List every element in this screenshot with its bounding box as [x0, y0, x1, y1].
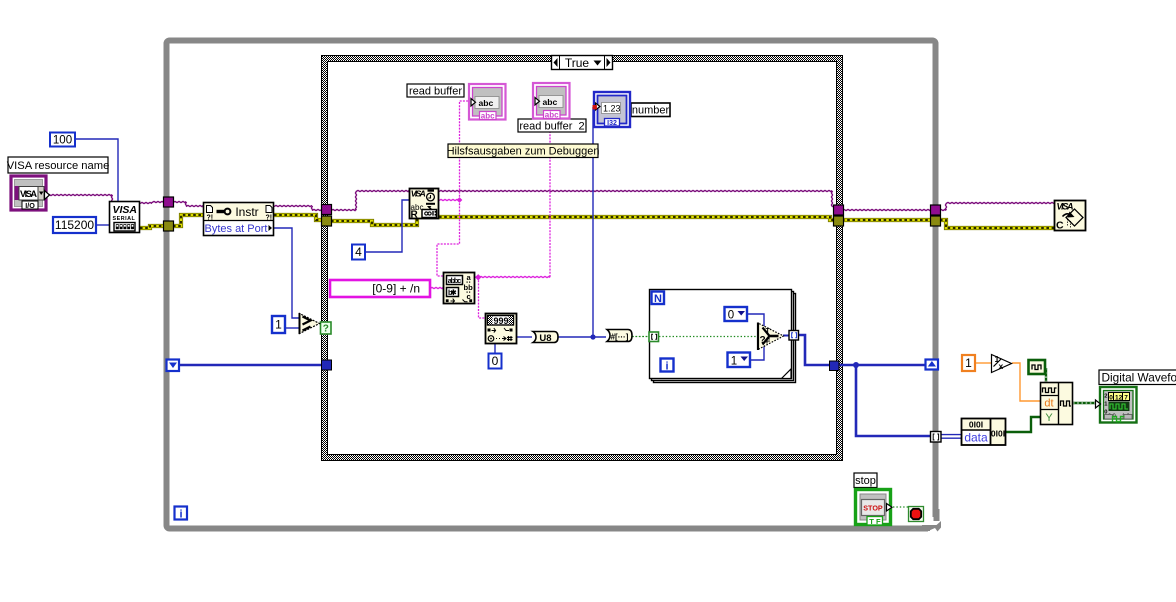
wire shift register left to case — [180, 364, 321, 367]
tunnel blue case right (array out) — [830, 361, 840, 371]
svg-text:read buffer 2: read buffer 2 — [519, 120, 584, 132]
wire string: match out down to scan node — [479, 277, 486, 318]
constant 115200 — [53, 217, 96, 233]
svg-text:F: F — [766, 339, 771, 346]
wire 115200 to serial config — [96, 224, 109, 226]
wire VISA purple: case tunnel to VISA read — [331, 209, 356, 210]
greater-or-equal comparison node — [300, 313, 320, 334]
svg-text:7: 7 — [1124, 394, 1128, 401]
wire VISA purple: while tunnel to property node — [173, 201, 186, 202]
svg-text:STOP: STOP — [863, 503, 883, 512]
while loop iteration terminal i — [175, 507, 188, 520]
wire digital data: data node to Y input — [1006, 417, 1040, 432]
wire 100 to serial config — [75, 139, 118, 201]
svg-text:C: C — [1056, 220, 1064, 232]
junction diamond string wire — [457, 197, 463, 203]
svg-text:115200: 115200 — [55, 218, 94, 232]
svg-text:999: 999 — [494, 316, 509, 326]
wire select constant 0 — [747, 314, 764, 331]
tunnel olive while right — [931, 216, 941, 226]
svg-text:0: 0 — [1109, 394, 1113, 401]
while loop border — [167, 41, 936, 529]
wire digital constant to build waveform — [1045, 368, 1047, 382]
VISA Read VI — [410, 189, 439, 221]
svg-text:bb: bb — [464, 283, 474, 292]
svg-text:0: 0 — [728, 310, 734, 322]
wire error: case tunnel to while tunnel — [842, 218, 932, 222]
junction dot scan wire — [590, 334, 595, 339]
wire 2D array to data node (double) — [939, 434, 961, 436]
wire digital waveform to indicator — [1073, 402, 1097, 404]
build digital waveform node — [1041, 383, 1073, 425]
svg-text:[0-9] + /n: [0-9] + /n — [372, 282, 420, 296]
U8 conversion node — [533, 332, 558, 344]
wire error: case tunnel to VISA read — [331, 219, 417, 225]
svg-text:R: R — [411, 209, 419, 220]
string constant regex — [330, 280, 430, 297]
wire error: serial config to while tunnel — [140, 226, 165, 228]
svg-text:abc: abc — [479, 98, 494, 108]
svg-text:1: 1 — [275, 318, 282, 332]
wire select output to loop tunnel — [783, 335, 789, 337]
constant 1 (bytes compare) — [272, 316, 285, 333]
label VISA resource name — [8, 157, 108, 173]
svg-text:True: True — [565, 56, 590, 70]
tunnel olive case left — [322, 216, 332, 226]
wire string: VISA read to junction — [439, 199, 460, 200]
wire error: VISA read to case right tunnel — [439, 217, 835, 220]
svg-text:abc: abc — [543, 97, 558, 107]
label stop — [854, 473, 877, 488]
svg-text:U8: U8 — [539, 333, 551, 344]
svg-text:Bytes at Port: Bytes at Port — [205, 223, 268, 235]
svg-text:abc: abc — [545, 110, 559, 119]
svg-text:number: number — [632, 105, 670, 117]
wire scan to U8 — [517, 336, 532, 338]
wire VISA purple: VISA read to case right tunnel — [439, 190, 832, 191]
svg-text:i: i — [179, 509, 182, 521]
tunnel array while right [] — [931, 432, 942, 443]
wire VISA purple: property node to case tunnel — [274, 205, 312, 206]
junction dot array wire — [853, 362, 859, 368]
svg-text:0: 0 — [492, 354, 499, 368]
match pattern node — [444, 273, 475, 304]
svg-text:I32: I32 — [607, 120, 617, 127]
wire orange reciprocal to dt input — [1012, 363, 1040, 401]
svg-text:Y: Y — [1045, 412, 1053, 424]
wire 4 to VISA read — [364, 200, 409, 252]
svg-text:Hilsfsausgaben zum Debuggen: Hilsfsausgaben zum Debuggen — [447, 146, 600, 158]
svg-text:12: 12 — [1115, 394, 1123, 401]
svg-text:?: ? — [323, 324, 329, 335]
digital data node — [962, 419, 1006, 446]
wire string: junction down to match pattern — [437, 200, 460, 276]
ring constant 1 — [728, 353, 751, 368]
numeric indicator number I32 — [593, 92, 631, 127]
svg-text:?!: ?! — [207, 215, 214, 222]
wire select constant 1 — [750, 343, 764, 360]
svg-text:abc: abc — [481, 111, 495, 120]
stop boolean control — [856, 490, 893, 526]
svg-text:1: 1 — [965, 356, 972, 370]
svg-text:1.23: 1.23 — [603, 104, 621, 114]
svg-text:VISA resource name: VISA resource name — [7, 160, 110, 172]
case structure border (True frame) — [322, 56, 843, 461]
svg-text:0I0I: 0I0I — [991, 429, 1005, 439]
svg-text:T: T — [766, 328, 771, 335]
svg-text:1: 1 — [731, 356, 737, 368]
select node — [758, 323, 784, 351]
wire boolean inside for loop — [659, 336, 757, 338]
constant 1 orange (DBL) — [962, 355, 975, 371]
wire number indicator branch — [592, 107, 594, 337]
svg-text:dt: dt — [1044, 398, 1053, 410]
case selector label True — [552, 56, 613, 71]
wire error: while tunnel to property node — [173, 215, 203, 226]
wire error: while tunnel to VISA close — [940, 220, 1054, 228]
VISA configure serial port VI — [110, 202, 140, 233]
tunnel blue case left — [322, 360, 332, 370]
loop condition terminal (stop sign) — [909, 507, 924, 522]
label read buffer — [407, 84, 464, 97]
svg-text:?!: ?! — [266, 215, 273, 222]
wire VISA purple: serial config to while tunnel — [140, 202, 152, 203]
comment label Hilsfsausgaben zum Debuggen — [448, 144, 598, 158]
wire 0 to scan node — [494, 344, 496, 354]
svg-text:T F: T F — [869, 517, 881, 526]
junction diamond match output — [475, 274, 481, 280]
svg-text:I/O: I/O — [25, 201, 35, 210]
case selector terminal ? — [321, 322, 332, 334]
constant 100 — [50, 133, 75, 147]
wire for-loop out to case tunnel (array) — [798, 335, 830, 365]
svg-text:#[···]: #[···] — [611, 333, 629, 342]
string indicator read buffer 2 — [533, 83, 570, 119]
wire array branch down to while tunnel — [856, 365, 931, 436]
label Digital Waveform — [1099, 370, 1176, 385]
svg-text:VISA: VISA — [411, 189, 426, 199]
digital pattern constant — [1029, 360, 1046, 374]
svg-text:0I0I: 0I0I — [969, 420, 983, 430]
wire VISA purple: control to serial config — [47, 194, 112, 195]
tunnel olive case right — [834, 216, 844, 226]
svg-text:SERIAL: SERIAL — [113, 216, 136, 222]
tunnel purple while right — [931, 205, 941, 215]
wire VISA purple: case right tunnel to while tunnel — [842, 209, 931, 210]
svg-text:abbc: abbc — [448, 276, 462, 285]
svg-text:VISA: VISA — [20, 189, 38, 199]
wire orange 1 to reciprocal — [975, 362, 991, 364]
wire string: regex constant to match pattern — [430, 287, 443, 288]
svg-text:VISA: VISA — [113, 204, 138, 216]
svg-text:4: 4 — [355, 245, 362, 259]
svg-text:Instr: Instr — [235, 205, 258, 219]
reciprocal 1/x node — [992, 354, 1012, 373]
wire string: match out to read buffer 2 — [475, 276, 550, 277]
tunnel olive while left — [164, 221, 174, 231]
wire boolean array to for loop — [632, 336, 650, 338]
svg-text:N: N — [654, 293, 662, 305]
VISA resource name control — [11, 176, 50, 210]
while loop resize corner — [928, 517, 945, 536]
string indicator read buffer — [469, 84, 506, 120]
number to boolean array node — [607, 330, 632, 342]
tunnel purple case right — [834, 205, 844, 215]
wire bytes at port to greater-equal — [274, 228, 299, 318]
for loop frame — [650, 290, 796, 383]
svg-text:data: data — [964, 431, 988, 445]
svg-text:b✱: b✱ — [448, 288, 457, 297]
for loop iteration terminal i — [661, 359, 674, 372]
VISA Close VI — [1055, 201, 1086, 232]
wire string: junction up to read buffer indicator — [460, 101, 470, 200]
shift register left — [167, 360, 180, 372]
tunnel purple while left — [164, 197, 174, 207]
for loop output tunnel [] — [789, 331, 799, 341]
label number — [631, 103, 670, 117]
constant 4 (byte count) — [352, 245, 365, 260]
wire VISA purple: while tunnel to VISA close — [939, 209, 946, 210]
decimal string to number node — [486, 314, 517, 344]
svg-text:VISA: VISA — [1057, 202, 1074, 212]
shift register right — [926, 360, 939, 370]
wire error: property node to case tunnel — [274, 215, 323, 220]
label read buffer 2 — [518, 119, 586, 132]
for loop count terminal N — [652, 292, 665, 305]
svg-text:read buffer: read buffer — [409, 85, 462, 97]
wire boolean stop to condition terminal — [893, 506, 908, 508]
tunnel purple case left — [322, 205, 332, 215]
wire U8 to bool-array node — [558, 336, 606, 338]
ring constant 0 — [725, 307, 748, 322]
wire case tunnel to shift register — [838, 364, 925, 367]
property node Instr / Bytes at Port — [204, 203, 274, 236]
wire 1 to greater-equal — [285, 327, 299, 329]
svg-text:Digital Waveform: Digital Waveform — [1102, 370, 1176, 384]
svg-text:100: 100 — [53, 135, 72, 147]
svg-text:i: i — [665, 361, 668, 373]
digital waveform indicator — [1096, 387, 1137, 423]
constant 0 (scan default) — [489, 354, 502, 369]
svg-text:stop: stop — [855, 475, 876, 487]
for loop input tunnel [] — [649, 332, 659, 342]
svg-text:x: x — [999, 361, 1004, 371]
svg-text:2: 2 — [1104, 394, 1107, 400]
